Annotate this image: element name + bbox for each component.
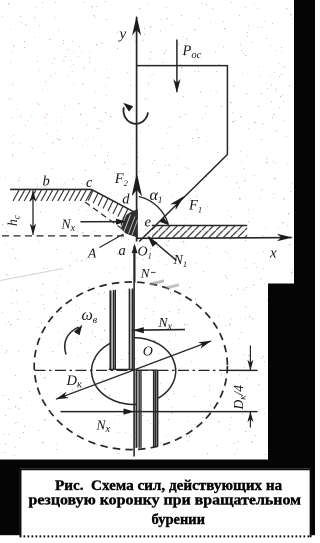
svg-text:N: N	[140, 266, 151, 281]
svg-text:e: e	[145, 215, 152, 231]
svg-text:бурении: бурении	[152, 512, 206, 528]
svg-text:x: x	[269, 246, 277, 262]
svg-text:резцовую коронку при вращатель: резцовую коронку при вращательном	[29, 493, 302, 509]
svg-text:c: c	[86, 175, 93, 191]
svg-text:Рис. Схема сил, действующих н: Рис. Схема сил, действующих на	[55, 478, 283, 494]
svg-text:A: A	[87, 246, 97, 261]
svg-text:O: O	[143, 345, 153, 360]
svg-text:y: y	[118, 27, 127, 43]
svg-text:b: b	[43, 174, 50, 190]
svg-text:a: a	[119, 243, 126, 259]
svg-text:d: d	[122, 192, 130, 208]
